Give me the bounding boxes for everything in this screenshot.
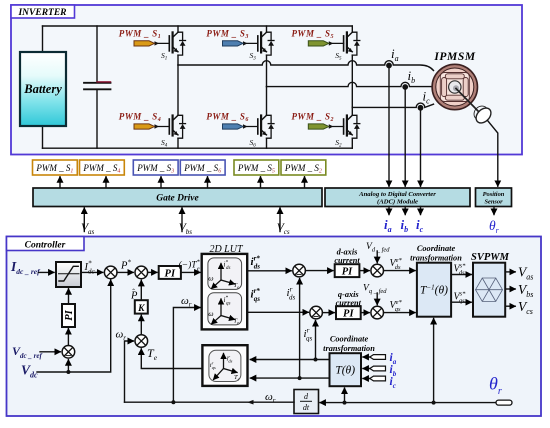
wire: ids feedback riser to d summer (299, 279, 301, 379)
wire: Vqs stationary into SVPWM (451, 301, 471, 303)
wire: ib sense drop to ADC (404, 87, 406, 186)
multiplier X1 (Idc* x Vdc) (104, 266, 117, 279)
PWM_S5 gate pointer (291, 29, 334, 47)
wire: leg3 phase C node to S2 collector (351, 107, 353, 115)
inverter title box (11, 5, 75, 18)
PWM_S6 gate pointer (206, 112, 249, 130)
PI regulator (dc link, vertical) (62, 304, 75, 327)
differentiator d/dt block (294, 390, 319, 414)
connector: ia pointer (370, 355, 386, 360)
wire: capacitor bottom lead (96, 90, 98, 149)
wire: leg3 S2 emitter to negative bus (351, 138, 353, 148)
wire: Idc_ref into limiter (39, 271, 55, 273)
limiter (saturation) block (56, 262, 81, 287)
transistor S2 (IGBT) (329, 115, 360, 148)
wire: K to divider X2 (140, 280, 142, 300)
node: theta junction to T(theta) (343, 401, 347, 405)
PI regulator d-axis (335, 264, 360, 277)
wire: theta_r bus from encoder connector to d/dt (320, 402, 496, 404)
svg-text:Controller: Controller (25, 241, 66, 251)
wire: gate drive output arrow to PWM_S5 (260, 177, 262, 188)
wire: leg2 S3 emitter to phase B node (266, 55, 268, 87)
PWM_S4 gate pointer (119, 112, 162, 130)
wire: motor shaft (456, 89, 480, 113)
wire: d error into PI (305, 270, 333, 272)
wire: Vcs command arrow into gate drive (279, 208, 281, 232)
wire: ids feedback from T(theta) to torque LUT (250, 377, 329, 379)
wire: gate drive output arrow to PWM_S1 (59, 177, 61, 188)
summer q-axis current error (310, 306, 323, 319)
svg-text:PI: PI (165, 268, 176, 279)
connector: theta_r input pill (496, 400, 512, 405)
wire: Vdc_ref into summer (40, 351, 60, 353)
wire: SVPWM output Vas (505, 271, 515, 273)
svg-text:ic: ic (416, 217, 424, 234)
svg-text:Vcs: Vcs (277, 222, 290, 236)
wire: into torque PI (148, 271, 157, 273)
wire: battery top lead (42, 26, 44, 52)
wire: theta riser into inverse transform (433, 319, 435, 403)
wire: Vqs into inverse transform (384, 312, 416, 314)
svg-text:ia: ia (384, 217, 392, 234)
transistor S4 (IGBT) (155, 115, 186, 148)
wire: Vbs command arrow into gate drive (181, 208, 183, 232)
inverse park transform block (417, 263, 451, 317)
svg-text:Vas: Vas (81, 222, 95, 236)
wire: leg1 S4 emitter to negative bus (177, 138, 179, 148)
PWM_S2 gate pointer (291, 112, 334, 130)
wire: ADC output arrow ic (420, 207, 422, 215)
divider X2 (P* / Phat) (135, 266, 148, 279)
wire: shaft to position sensor (488, 121, 498, 187)
wire: iqs* command to q summer (247, 311, 308, 313)
transistor S5 (IGBT) (329, 32, 360, 61)
wire: positive DC bus (43, 25, 353, 27)
connector: ib pointer (370, 366, 386, 371)
svg-text:ω: ω (208, 274, 213, 283)
wire: limiter output into multiplier (81, 271, 103, 273)
transistor S1 (IGBT) (155, 32, 186, 61)
PWM_S1 signal box (33, 160, 78, 175)
wire: ic input arrow into T(theta) (363, 378, 371, 380)
summer X4 (Vdc_ref - Vdc) (62, 346, 75, 359)
wire: leg1 collector S1 (177, 26, 179, 32)
PWM_S3 signal box (133, 160, 178, 175)
label: coordinate transformation (inverse) (410, 244, 462, 263)
svg-text:PWM _ S5: PWM _ S5 (291, 29, 334, 41)
svg-text:Sensor: Sensor (484, 199, 503, 206)
wire: omega_r riser from bottom bus into multiplier X3 (125, 341, 134, 402)
wire: SVPWM output Vbs (505, 288, 515, 290)
wire: Vds stationary into SVPWM (451, 274, 471, 276)
wire: phase B line to motor with hop and tap bump (267, 82, 433, 86)
controller title box (7, 237, 85, 251)
svg-text:ˆ: ˆ (132, 288, 135, 297)
svg-text:PI: PI (342, 267, 353, 278)
inverter enclosure box (11, 5, 522, 155)
wire: Vq_fed down into summer (376, 293, 378, 305)
PWM_S1 gate pointer (119, 29, 162, 47)
svg-text:PWM _ S4: PWM _ S4 (82, 163, 120, 175)
PWM_S3 gate pointer (206, 29, 249, 47)
PI regulator (torque) (159, 266, 181, 279)
wire: ia sense drop to ADC (388, 66, 390, 187)
svg-text:transformation: transformation (323, 344, 375, 353)
wire: gate drive output arrow to PWM_S3 (160, 177, 162, 188)
node: omega_r junction on bottom bus (171, 400, 175, 404)
multiplier X3 (omega x Te) (135, 335, 148, 348)
wire: P* into divider (117, 271, 133, 273)
svg-text:T−1(θ): T−1(θ) (420, 284, 448, 297)
wire: phase A line to motor with hops over legs and tap bump (178, 61, 434, 71)
position sensor block (476, 188, 512, 207)
wire: Vd_fed down into summer (376, 251, 378, 263)
battery (20, 52, 66, 126)
wire: leg1 phase A node to S4 collector (177, 65, 179, 115)
wire: leg2 phase B node to S6 collector (266, 87, 268, 116)
wire: gate drive output arrow to PWM_S6 (207, 177, 209, 188)
wire: leg2 S6 emitter to negative bus (266, 138, 268, 148)
SVPWM block with space vector hexagon (473, 263, 505, 317)
ADC module block (325, 188, 470, 207)
svg-text:ib: ib (401, 217, 409, 234)
node: iqs feedback junction (314, 358, 318, 362)
svg-text:T(θ): T(θ) (335, 365, 355, 377)
shaft coupling (470, 102, 493, 125)
wire: gate drive output arrow to PWM_S4 (105, 177, 107, 188)
capacitor C (DC link) (84, 82, 111, 89)
wire: gate drive output arrow to PWM_S2 (304, 177, 306, 188)
wire: Vds into inverse transform (384, 270, 416, 272)
wire: ADC output arrow ia (388, 207, 390, 215)
svg-text:PWM _ S2: PWM _ S2 (291, 112, 334, 124)
wire: q error into PI (322, 312, 334, 314)
wire: capacitor top lead (96, 26, 98, 83)
wire: theta riser into T(theta) (344, 388, 346, 403)
PWM_S6 signal box (180, 160, 225, 175)
wire: leg3 S5 emitter to phase C node (351, 55, 353, 107)
label: q-axis current (336, 290, 362, 308)
PWM_S4 signal box (80, 160, 125, 175)
transistor S3 (IGBT) (243, 32, 274, 61)
wire: battery bottom lead (42, 126, 44, 148)
svg-text:PWM _ S3: PWM _ S3 (136, 163, 174, 175)
svg-text:PWM _ S1: PWM _ S1 (119, 29, 162, 41)
svg-text:transformation: transformation (410, 254, 462, 263)
label: coordinate transformation (abc to dq) (323, 335, 375, 354)
wire: phase C line to motor with tap bump (352, 103, 433, 107)
svg-text:INVERTER: INVERTER (17, 8, 66, 18)
wire: q PI to Vq summer (361, 312, 370, 314)
park transform block T(theta) (330, 353, 362, 386)
torque estimation LUT block (202, 345, 247, 386)
svg-text:PWM _ S3: PWM _ S3 (206, 29, 249, 41)
PWM_S2 signal box (281, 160, 326, 175)
node: Vdc junction (66, 370, 70, 374)
summer Vq feedforward (371, 306, 384, 319)
label: P hat (130, 288, 138, 302)
svg-text:Vbs: Vbs (179, 222, 193, 236)
gate drive block (33, 188, 322, 207)
wire: d PI to Vd summer (359, 270, 369, 272)
wire: Te* command into 2D LUT (181, 271, 200, 273)
svg-text:θr: θr (489, 218, 500, 235)
wire: omega_r riser into 2D LUT (173, 308, 200, 403)
label: d-axis current (334, 248, 360, 266)
summer Vd feedforward (371, 264, 384, 277)
svg-text:PWM _ S4: PWM _ S4 (119, 112, 162, 124)
svg-text:Position: Position (483, 191, 505, 198)
wire: omega_r mid arrowhead (247, 400, 254, 405)
wire: ADC output arrow ib (404, 207, 406, 215)
svg-text:Analog to Digital Converter: Analog to Digital Converter (358, 191, 436, 198)
svg-text:K: K (137, 304, 145, 314)
wire: position sensor output arrow (493, 207, 495, 215)
wire: summer to PI (dc link) (67, 329, 69, 346)
node: phase A current tap (386, 63, 392, 69)
wire: Vdc branch up into summer (67, 360, 69, 372)
wire: Vas command arrow into gate drive (83, 208, 85, 232)
2D LUT block (202, 254, 248, 330)
svg-text:PWM _ S6: PWM _ S6 (183, 163, 221, 175)
svg-text:PWM _ S5: PWM _ S5 (237, 163, 275, 175)
wire: iqs feedback riser to q summer (315, 321, 317, 360)
wire: leg2 collector S3 (266, 26, 268, 32)
PWM_S5 signal box (234, 160, 279, 175)
svg-text:Battery: Battery (23, 82, 62, 96)
svg-text:(−)T*e: (−)T*e (179, 259, 201, 273)
svg-text:PWM _ S2: PWM _ S2 (284, 163, 322, 175)
svg-text:PWM _ S1: PWM _ S1 (35, 163, 73, 175)
transistor S6 (IGBT) (243, 115, 274, 148)
wire: iqs feedback from T(theta) to torque LUT (250, 359, 329, 361)
svg-text:PI: PI (343, 309, 354, 320)
svg-text:Gate Drive: Gate Drive (156, 194, 199, 204)
svg-text:PI: PI (64, 309, 75, 320)
PI regulator q-axis (336, 306, 361, 319)
wire: Te from LUT into multiplier X3 (141, 349, 202, 369)
wire: X3 to K gain (140, 315, 142, 334)
gain K block (135, 300, 148, 314)
controller enclosure box (7, 237, 542, 417)
wire: SVPWM output Vcs (505, 305, 515, 307)
wire: PI to limiter (68, 289, 70, 304)
node: phase C current tap (418, 105, 424, 111)
wire: ib input arrow into T(theta) (363, 368, 371, 370)
wire: omega_r bus from d/dt to left riser (125, 401, 295, 403)
svg-text:PWM _ S6: PWM _ S6 (206, 112, 249, 124)
wire: leg1 S1 emitter to phase A node (177, 55, 179, 65)
svg-text:SVPWM: SVPWM (471, 252, 510, 263)
svg-text:(ADC) Module: (ADC) Module (377, 199, 418, 206)
summer d-axis current error (293, 264, 306, 277)
svg-text:ω: ω (208, 309, 213, 318)
node: phase B current tap (402, 84, 408, 90)
svg-text:Coordinate: Coordinate (330, 335, 369, 344)
node: theta junction to inverse transform (432, 401, 436, 405)
wire: negative DC bus (43, 147, 353, 149)
wire: ia input arrow into T(theta) (363, 356, 371, 358)
wire: ids* command to d summer (247, 270, 291, 272)
wire: ic sense drop to ADC (420, 108, 422, 186)
svg-text:dt: dt (303, 403, 310, 412)
node: ids feedback junction (298, 376, 302, 380)
svg-text:IPMSM: IPMSM (433, 51, 476, 63)
svg-text:Coordinate: Coordinate (417, 244, 456, 253)
connector: ic pointer (370, 376, 386, 381)
wire: Vdc feed to multiplier X1 (37, 280, 111, 372)
motor IPMSM (432, 64, 477, 109)
wire: leg3 collector S5 (351, 26, 353, 32)
